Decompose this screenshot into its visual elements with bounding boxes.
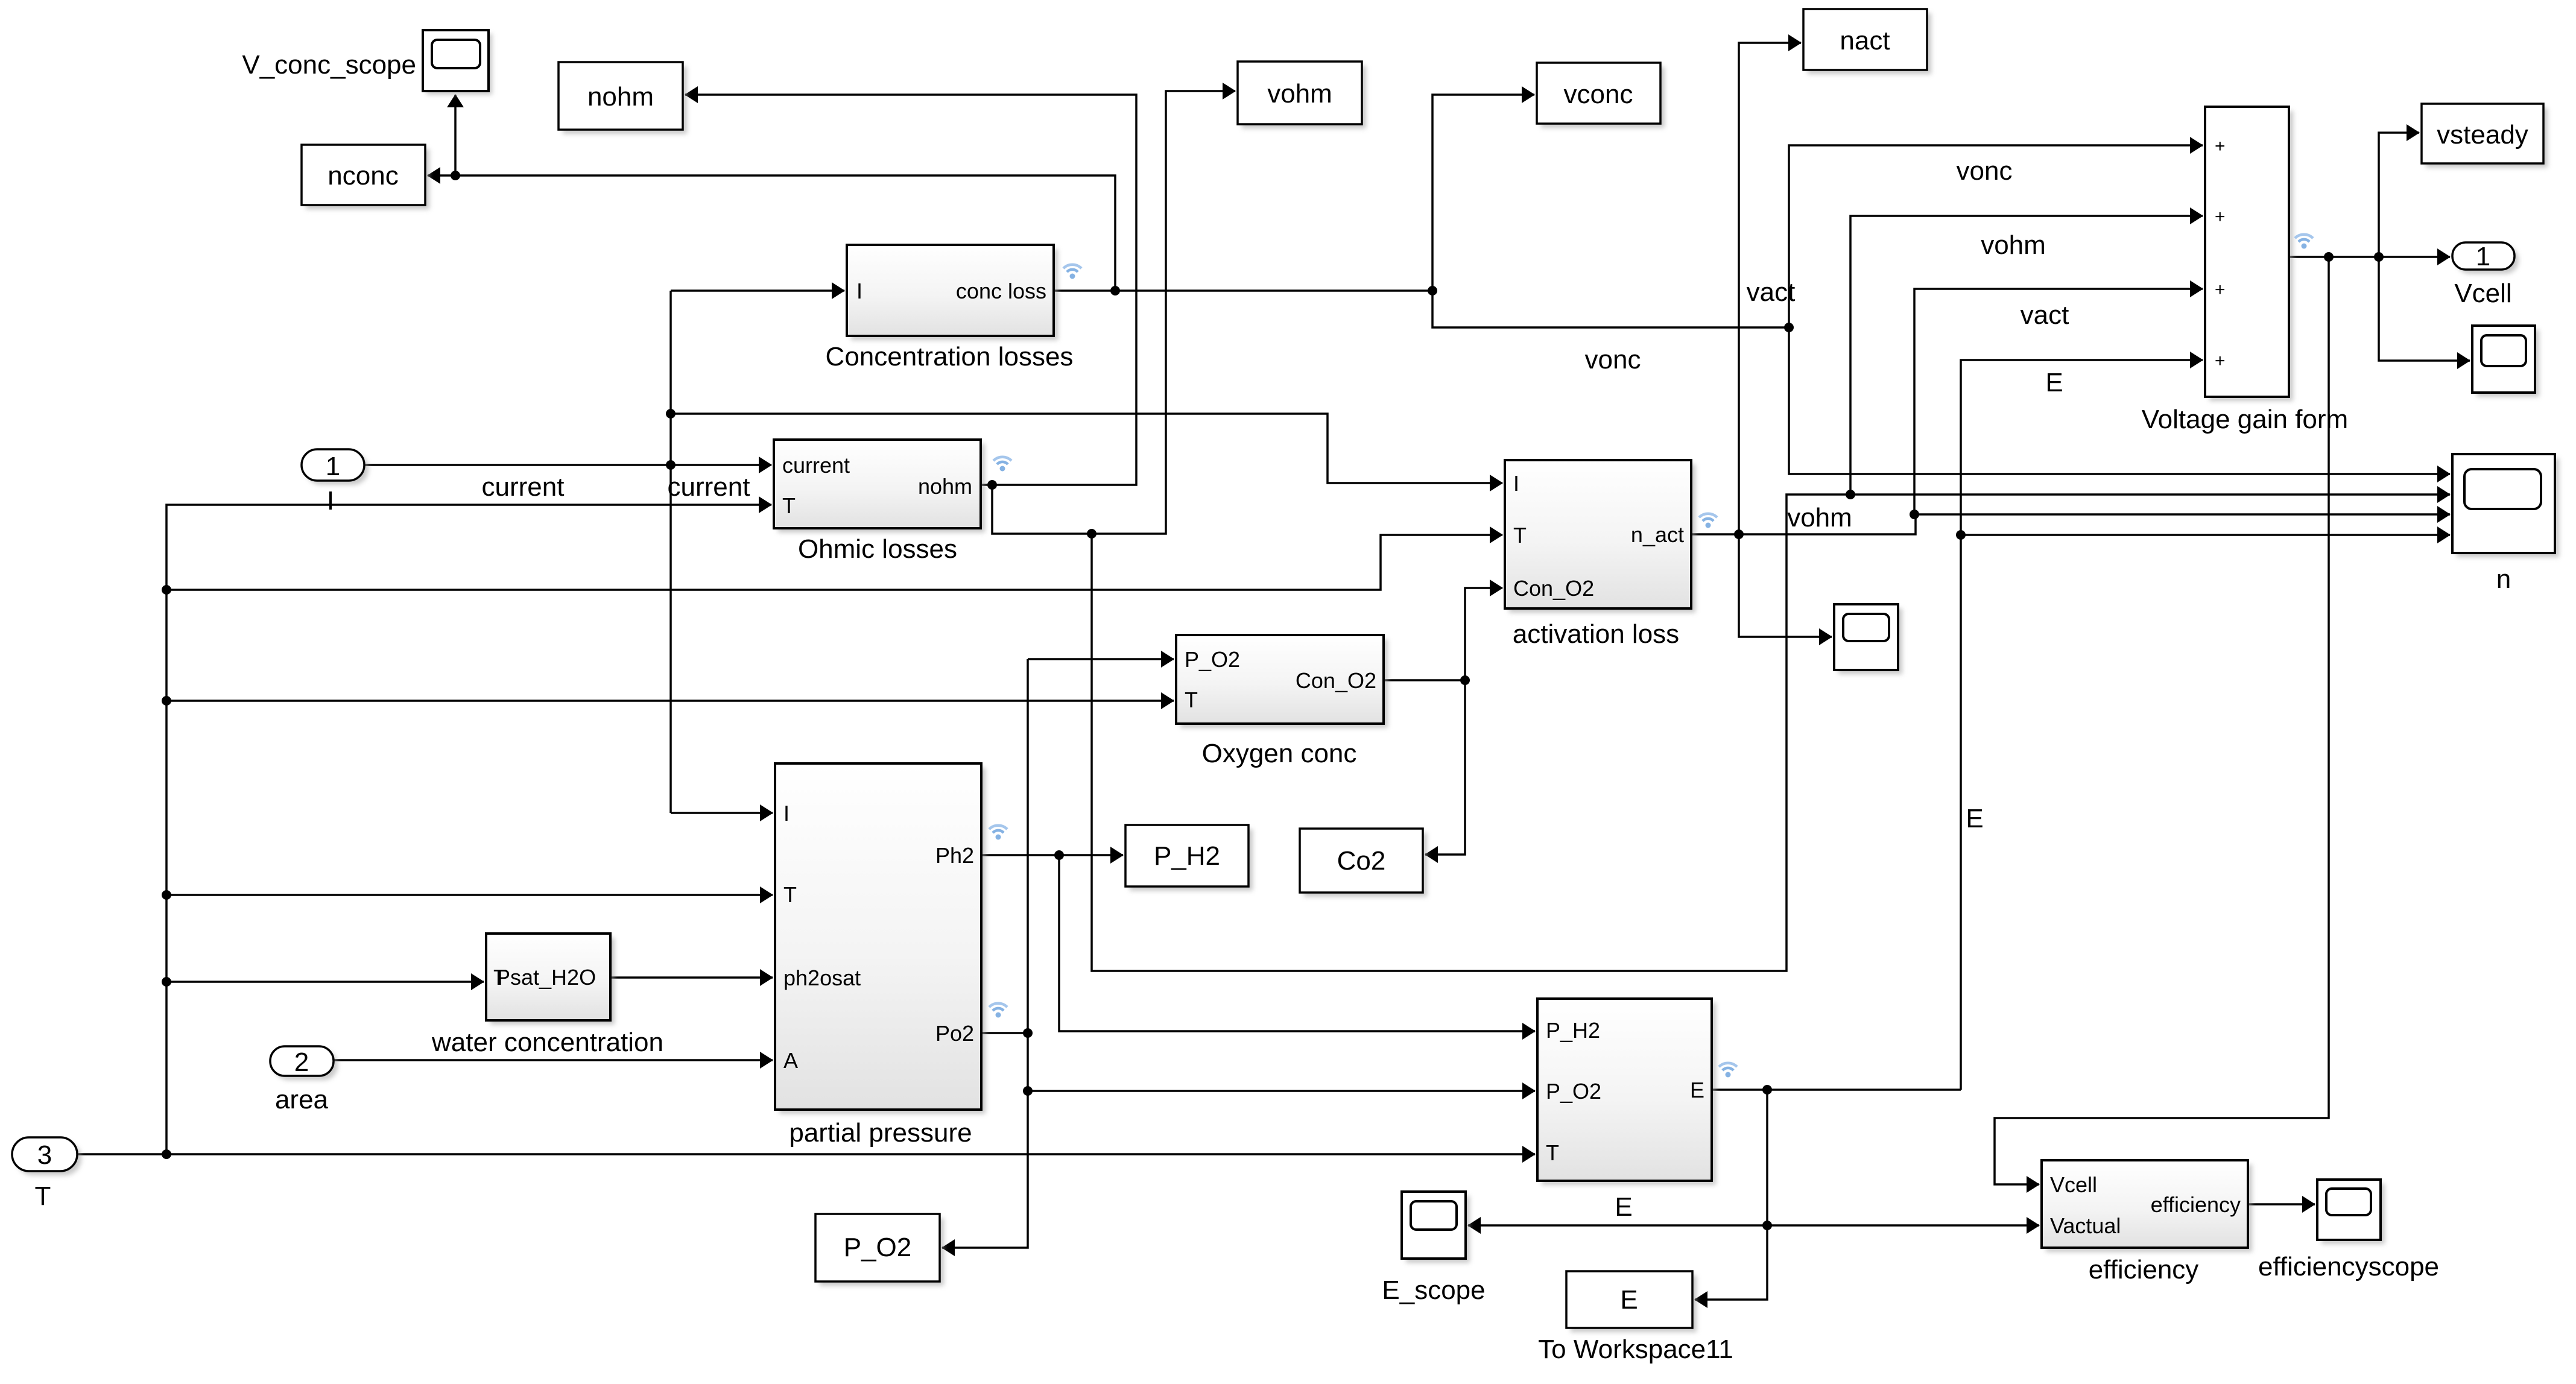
- junction T col inport3: [162, 1149, 171, 1159]
- svg-text:current: current: [482, 472, 565, 502]
- junction Po2 to E: [1023, 1086, 1033, 1096]
- svg-text:E: E: [1690, 1078, 1704, 1102]
- wire vohm routing to n scope input 2: [1092, 495, 2450, 971]
- svg-text:Co2: Co2: [1337, 846, 1386, 876]
- wire T main from inport3 to E subsystem T port: [77, 1153, 1535, 1155]
- svg-text:efficiency: efficiency: [2089, 1255, 2199, 1284]
- wire Po2 riser x=1704 to P_O2 goto: [942, 659, 1028, 1248]
- svg-text:vohm: vohm: [1787, 503, 1852, 532]
- wire Con_O2 to Co2 from tag: [1425, 680, 1465, 855]
- junction vonc riser: [1784, 323, 1794, 332]
- svg-text:To Workspace11: To Workspace11: [1538, 1335, 1733, 1364]
- junction nohm to vohm route: [1087, 529, 1097, 539]
- svg-text:nact: nact: [1840, 26, 1890, 55]
- wire branch to nconc goto: [428, 175, 1115, 291]
- svg-text:I: I: [783, 801, 790, 826]
- svg-text:conc loss: conc loss: [956, 279, 1046, 303]
- wire Con_O2 to activation loss Con_O2 port: [1465, 588, 1502, 680]
- wire nohm output to nohm goto: [685, 95, 1136, 485]
- svg-text:Po2: Po2: [935, 1021, 974, 1046]
- wire vonc down-jog to riser: [1432, 291, 1789, 327]
- svg-text:nohm: nohm: [587, 82, 654, 112]
- svg-text:E: E: [1615, 1192, 1632, 1222]
- wire T branch to partial pressure T port: [166, 894, 773, 896]
- svg-text:T: T: [782, 493, 796, 518]
- wire vact riser to sum input 3: [1914, 289, 2203, 514]
- wire E to n scope input 4: [1961, 534, 2450, 536]
- junction Po2 riser top: [1023, 1028, 1033, 1038]
- inport 3: [12, 1137, 81, 1211]
- goto nconc: [302, 145, 429, 209]
- svg-text:Oxygen conc: Oxygen conc: [1202, 739, 1357, 768]
- junction T col 1484: [162, 890, 171, 900]
- wire Po2 to E subsystem P_O2 port: [1028, 1090, 1535, 1092]
- junction nconc/scope branch: [451, 171, 460, 180]
- svg-text:vact: vact: [2021, 300, 2069, 330]
- svg-text:V_conc_scope: V_conc_scope: [242, 50, 416, 80]
- svg-text:Vcell: Vcell: [2050, 1172, 2097, 1197]
- wire T riser x=276 to Ohmic losses T port: [166, 505, 771, 1154]
- subsystem Psat_H2O water concentration: [431, 934, 663, 1057]
- scope E_scope: [1382, 1192, 1485, 1305]
- svg-text:I: I: [856, 279, 862, 303]
- wire E to efficiency Vactual port: [1767, 1224, 2039, 1227]
- svg-text:T: T: [783, 882, 797, 907]
- inport 1: [302, 449, 369, 516]
- svg-text:P_O2: P_O2: [844, 1233, 912, 1262]
- svg-text:I: I: [327, 486, 334, 516]
- wire E output: [1712, 1089, 1961, 1091]
- wire conc loss output: [1054, 289, 1432, 292]
- goto vconc: [1537, 63, 1665, 128]
- wire vonc riser to sum input 1: [1789, 145, 2203, 327]
- svg-text:vonc: vonc: [1585, 345, 1641, 374]
- from Co2: [1300, 829, 1427, 897]
- svg-text:2: 2: [294, 1047, 309, 1077]
- junction conc out to vconc: [1428, 286, 1437, 295]
- wire inport1 I/current to Ohmic losses current port: [364, 464, 771, 466]
- svg-text:partial pressure: partial pressure: [789, 1118, 972, 1148]
- goto P_O2: [815, 1214, 944, 1286]
- svg-text:1: 1: [2476, 242, 2490, 271]
- goto vsteady: [2422, 104, 2548, 168]
- goto vohm: [1238, 62, 1366, 128]
- wire n_act output to n scope input 3: [1691, 514, 2450, 534]
- svg-text:Con_O2: Con_O2: [1296, 668, 1376, 693]
- svg-text:vconc: vconc: [1564, 80, 1633, 109]
- svg-text:+: +: [2215, 351, 2226, 371]
- wire to vsteady goto: [2379, 133, 2419, 257]
- svg-text:vohm: vohm: [1981, 230, 2046, 260]
- goto nohm: [559, 62, 687, 134]
- svg-text:I: I: [1513, 471, 1519, 496]
- svg-text:current: current: [782, 453, 850, 478]
- junction T col 978: [162, 585, 171, 595]
- wire nohm jog to vohm goto: [992, 91, 1235, 534]
- junction current to act I: [666, 409, 676, 419]
- svg-text:vsteady: vsteady: [2437, 120, 2528, 150]
- wire current branch to partial pressure I port: [671, 812, 773, 814]
- wire Po2 output stub: [981, 1032, 1028, 1034]
- svg-text:P_O2: P_O2: [1546, 1079, 1601, 1104]
- junction nohm output: [987, 480, 997, 490]
- svg-text:Con_O2: Con_O2: [1513, 576, 1594, 601]
- scope right of Vcell: [2472, 326, 2539, 397]
- junction E riser to n scope: [1956, 530, 1966, 540]
- wire branch up to V_conc_scope: [454, 95, 457, 175]
- wire inport2 area to partial pressure A port: [334, 1059, 773, 1061]
- svg-text:current: current: [668, 472, 750, 502]
- junction T col 1628: [162, 977, 171, 987]
- inport 2: [270, 1046, 338, 1114]
- svg-text:activation loss: activation loss: [1513, 619, 1679, 649]
- wire current branch to Concentration losses I port: [671, 289, 844, 292]
- svg-text:+: +: [2215, 280, 2226, 300]
- to workspace E: [1538, 1271, 1733, 1364]
- wire branch to vconc goto: [1432, 95, 1534, 291]
- svg-text:P_H2: P_H2: [1154, 841, 1220, 871]
- svg-text:3: 3: [37, 1140, 52, 1170]
- junction Con_O2: [1460, 675, 1470, 685]
- svg-text:+: +: [2215, 207, 2226, 227]
- junction n_act output: [1734, 529, 1744, 539]
- svg-text:efficiency: efficiency: [2151, 1192, 2241, 1217]
- svg-text:vact: vact: [1747, 277, 1796, 307]
- svg-text:T: T: [1546, 1140, 1559, 1165]
- wire E to E_scope: [1468, 1224, 1767, 1227]
- wire E riser to sum input 4: [1961, 360, 2203, 1090]
- wire Ph2 to E subsystem P_H2 port: [1059, 855, 1535, 1031]
- svg-text:nohm: nohm: [918, 474, 972, 499]
- svg-text:P_O2: P_O2: [1185, 647, 1240, 672]
- outport 1 Vcell: [2452, 242, 2519, 308]
- svg-text:T: T: [35, 1181, 51, 1211]
- wire efficiency output to efficiencyscope: [2248, 1203, 2315, 1205]
- svg-text:T: T: [1185, 687, 1198, 712]
- junction Vcell feedback: [2324, 252, 2334, 262]
- svg-text:T: T: [1513, 523, 1527, 548]
- scope n: [2452, 454, 2559, 594]
- wire Po2 to Oxygen conc P_O2 port: [1028, 658, 1174, 660]
- subsystem activation loss: [1505, 460, 1717, 649]
- subsystem Ohmic losses: [774, 440, 1011, 564]
- junction vohm riser: [1846, 490, 1855, 499]
- svg-text:E_scope: E_scope: [1382, 1275, 1485, 1305]
- wire vohm riser to sum input 2: [1850, 216, 2203, 495]
- svg-text:A: A: [783, 1048, 798, 1073]
- svg-text:Psat_H2O: Psat_H2O: [496, 965, 596, 990]
- svg-text:E: E: [1620, 1285, 1638, 1315]
- scope V_conc_scope: [242, 30, 492, 95]
- wire E down to To Workspace: [1695, 1090, 1767, 1300]
- junction current at inport wire: [666, 460, 676, 470]
- wire Vcell feedback to efficiency Vcell port: [1995, 257, 2329, 1184]
- wire Psat_H2O output to ph2osat port: [610, 976, 773, 979]
- svg-text:Vactual: Vactual: [2050, 1213, 2121, 1238]
- wire current branch to activation loss I port: [671, 414, 1502, 483]
- junction conc out to nconc: [1110, 286, 1120, 295]
- wire T branch to activation loss T port: [166, 535, 1502, 590]
- wire T branch to Psat_H2O input: [166, 981, 484, 983]
- svg-text:E: E: [2045, 368, 2063, 397]
- svg-text:Ohmic losses: Ohmic losses: [798, 534, 957, 564]
- svg-text:n: n: [2496, 564, 2511, 594]
- sum block Voltage gain form: [2142, 107, 2348, 434]
- wire current riser x=1112: [669, 291, 672, 813]
- subsystem Concentration losses: [826, 245, 1081, 371]
- junction T col 1162: [162, 696, 171, 706]
- svg-text:+: +: [2215, 136, 2226, 156]
- svg-text:area: area: [275, 1085, 329, 1114]
- subsystem efficiency: [2042, 1160, 2252, 1284]
- svg-text:efficiencyscope: efficiencyscope: [2258, 1252, 2439, 1281]
- goto nact: [1803, 9, 1931, 74]
- wire vonc to n scope input 1: [1789, 327, 2450, 474]
- scope efficiencyscope: [2258, 1180, 2439, 1281]
- wire Ph2 output to P_H2 goto: [981, 854, 1123, 856]
- junction vact riser: [1910, 510, 1919, 519]
- svg-text:Ph2: Ph2: [935, 843, 974, 868]
- svg-text:1: 1: [326, 452, 340, 481]
- goto P_H2: [1125, 825, 1253, 891]
- svg-text:Vcell: Vcell: [2454, 279, 2511, 308]
- svg-text:water concentration: water concentration: [431, 1028, 663, 1057]
- junction vsteady branch: [2374, 252, 2384, 262]
- wire Con_O2 output stub: [1384, 679, 1465, 681]
- wire n_act to scope: [1739, 534, 1832, 637]
- wire to Vcell scope: [2379, 257, 2470, 361]
- wire n_act to nact goto: [1739, 43, 1801, 534]
- svg-text:Concentration losses: Concentration losses: [826, 342, 1074, 371]
- junction E output: [1762, 1085, 1772, 1095]
- junction Ph2: [1054, 850, 1064, 860]
- junction E scope branch: [1762, 1221, 1772, 1230]
- wire sum output to Vcell outport: [2289, 256, 2450, 258]
- svg-text:ph2osat: ph2osat: [783, 965, 861, 990]
- scope nact small: [1834, 604, 1902, 674]
- svg-text:n_act: n_act: [1631, 522, 1684, 547]
- wire T branch to Oxygen conc T port: [166, 700, 1174, 702]
- svg-text:nconc: nconc: [328, 161, 398, 191]
- svg-text:Voltage gain form: Voltage gain form: [2142, 405, 2348, 434]
- svg-text:vohm: vohm: [1267, 79, 1332, 109]
- svg-text:P_H2: P_H2: [1546, 1018, 1600, 1043]
- svg-text:vonc: vonc: [1957, 156, 2013, 186]
- subsystem E: [1537, 999, 1737, 1222]
- subsystem Oxygen conc: [1176, 635, 1388, 768]
- subsystem partial pressure: [775, 763, 1007, 1148]
- svg-text:E: E: [1966, 804, 1983, 833]
